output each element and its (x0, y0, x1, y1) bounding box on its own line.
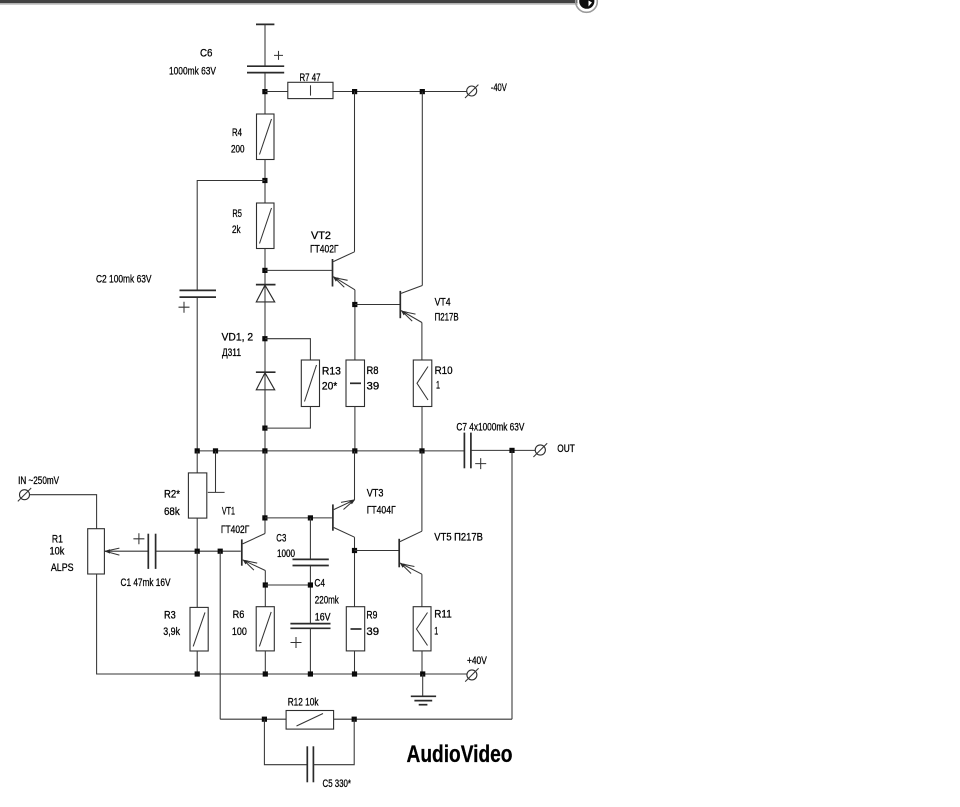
wire VD1 to junction (264, 285, 266, 373)
wire emitter to C3/C4 node (265, 584, 310, 586)
wire VT3 collector down (354, 537, 356, 607)
label +40V (467, 655, 487, 667)
svg-text:ALPS: ALPS (51, 562, 74, 574)
label R9 (366, 610, 379, 639)
node VT4 collector rail tap (420, 89, 425, 94)
wire VT4 emitter to R10 (421, 323, 423, 361)
svg-text:VD1, 2: VD1, 2 (222, 332, 254, 344)
svg-text:R4: R4 (232, 127, 242, 139)
svg-text:1000: 1000 (277, 548, 295, 560)
wire R13 bottom to junction (265, 407, 310, 429)
label C5 (323, 778, 352, 790)
terminal +40V (465, 668, 478, 681)
svg-text:100: 100 (232, 626, 247, 638)
capacitor C6 (247, 51, 284, 73)
node feedback base junction (218, 549, 223, 554)
svg-text:C2 100mk 63V: C2 100mk 63V (96, 274, 152, 286)
label C1 (121, 577, 171, 589)
wire junction to C2 branch (197, 181, 265, 291)
svg-text:1: 1 (434, 626, 438, 638)
label R5 (232, 208, 242, 236)
label C3 (276, 533, 295, 561)
svg-text:C6: C6 (200, 48, 213, 60)
svg-text:1000mk 63V: 1000mk 63V (169, 66, 217, 78)
label R3 (163, 610, 180, 639)
terminal OUT (533, 443, 547, 457)
node R12/C5 left junction (262, 717, 267, 722)
capacitor C7 (464, 433, 486, 470)
label C4 (314, 578, 339, 624)
wire output rail (197, 450, 464, 452)
label OUT (557, 443, 575, 455)
svg-text:R3: R3 (164, 610, 176, 622)
node ground rail C4 junction (308, 671, 313, 676)
corner button icon (576, 0, 598, 12)
svg-text:C5 330*: C5 330* (323, 778, 352, 790)
node rail diode chain junction (262, 448, 267, 453)
svg-text:-40V: -40V (491, 82, 507, 94)
node diode mid junction (262, 336, 267, 341)
svg-text:200: 200 (231, 144, 245, 156)
wire to VT3 base (265, 517, 332, 519)
label VT3 (367, 488, 396, 517)
node C3 top junction (308, 515, 313, 520)
svg-text:20*: 20* (322, 381, 338, 393)
resistor R13 (301, 360, 319, 407)
label R6 (232, 609, 247, 638)
svg-text:IN ~250mV: IN ~250mV (18, 475, 59, 487)
resistor R12 (286, 711, 334, 730)
wire R7 to -40V terminal (333, 91, 467, 93)
svg-text:R12 10k: R12 10k (288, 697, 319, 709)
node rail R10/VT5 junction (419, 448, 424, 453)
diode VD2 (256, 372, 276, 390)
capacitor C5 (307, 746, 313, 782)
label R12 (288, 697, 319, 709)
label C7 (456, 422, 524, 434)
wire R6 to rail (264, 651, 266, 674)
label VT4 (435, 297, 459, 324)
svg-text:R9: R9 (366, 610, 377, 622)
transistor VT4 (400, 286, 422, 323)
svg-text:C7 4x1000mk 63V: C7 4x1000mk 63V (456, 422, 524, 434)
wire C5 right branch (313, 719, 354, 765)
svg-text:R13: R13 (322, 366, 341, 378)
label R8 (367, 365, 380, 393)
label -40V (491, 82, 507, 94)
node rail/C2/R2 junction (195, 448, 200, 453)
node ground rail R6 junction (263, 671, 268, 676)
svg-text:2k: 2k (232, 224, 241, 236)
node VT2 base junction (262, 268, 267, 273)
resistor R4 (257, 114, 275, 160)
svg-text:AudioVideo: AudioVideo (407, 741, 513, 768)
wire C6 to R4 (264, 73, 266, 114)
svg-text:3,9k: 3,9k (163, 626, 180, 638)
wire C2 down to out rail (196, 298, 198, 451)
label VD1,2 (222, 332, 254, 360)
wire C5 left branch (264, 719, 307, 765)
node R4/R5 junction (262, 178, 267, 183)
wire VT2 emitter to R8 (354, 290, 356, 360)
wire feedback left vertical (219, 551, 221, 719)
svg-text:10k: 10k (50, 546, 65, 558)
wire R2 to base node (196, 518, 198, 551)
wire R3 to rail (196, 651, 198, 674)
svg-text:+40V: +40V (467, 655, 487, 667)
node R12/C5 right junction (352, 717, 357, 722)
wire VT2 collector vertical (354, 92, 356, 252)
wire R10 to out rail (421, 407, 423, 451)
svg-text:VT2: VT2 (311, 230, 331, 242)
node VT4 base junction (352, 302, 357, 307)
node VT1 emitter junction (263, 582, 268, 587)
node rail R2 tap junction (213, 448, 218, 453)
node feedback takeoff junction (509, 448, 514, 453)
label R2 (164, 489, 181, 519)
label VT5 (434, 532, 483, 544)
svg-text:VT4: VT4 (435, 297, 451, 309)
node ground rail R9 junction (352, 671, 357, 676)
wire VT4 collector vertical (421, 92, 423, 286)
wire VT5 base (355, 550, 399, 552)
resistor R2 (188, 473, 206, 518)
svg-text:16V: 16V (315, 612, 331, 624)
capacitor C2 (179, 290, 217, 312)
wire R2 tap (208, 451, 225, 493)
wire C7 to OUT terminal (471, 449, 535, 451)
wire R5 to VD1 (264, 249, 266, 285)
node C6/R7 junction (262, 89, 267, 94)
browser top bar (0, 0, 586, 5)
wire base node to R3 (196, 551, 198, 607)
svg-text:ГТ402Г: ГТ402Г (221, 524, 249, 536)
wire VT2 base (265, 269, 332, 271)
wire stub to C6 (264, 24, 266, 66)
label R1 (50, 534, 74, 575)
wire C4 to rail (309, 628, 311, 674)
label C2 (96, 274, 152, 286)
wire R11 to rail (421, 651, 423, 674)
label R13 (322, 366, 341, 393)
wire IN to R1 (30, 495, 97, 529)
resistor R7 (288, 82, 333, 98)
svg-text:R7 47: R7 47 (300, 72, 321, 84)
svg-text:Д311: Д311 (222, 347, 241, 359)
wire VT1 collector up to rail (264, 451, 266, 534)
potentiometer R1 (88, 529, 149, 574)
terminal IN (18, 488, 31, 501)
wire VT5 collector to rail (421, 451, 423, 531)
transistor VT1 (242, 534, 265, 571)
node VT5 base junction (352, 548, 357, 553)
svg-text:ГТ402Г: ГТ402Г (310, 244, 339, 256)
resistor R3 (190, 607, 208, 651)
resistor R8 (346, 360, 365, 407)
svg-text:R10: R10 (435, 365, 453, 377)
wire VT4 base (355, 304, 400, 306)
wire C1 to VT1 base (156, 550, 241, 552)
wire VT3 emitter to rail (354, 451, 356, 500)
resistor R9 (346, 607, 364, 651)
node C3/C4 mid junction (308, 582, 313, 587)
node VD2/R13 bottom junction (262, 426, 267, 431)
node R2/R3 base junction (195, 549, 200, 554)
wire rail to R2 (196, 451, 198, 473)
label VT2 (310, 230, 339, 256)
wire feedback right vertical (511, 450, 513, 719)
svg-text:R2*: R2* (164, 489, 181, 501)
svg-text:68k: 68k (164, 506, 180, 518)
svg-text:VT5 П217В: VT5 П217В (434, 532, 483, 544)
svg-text:R1: R1 (52, 534, 63, 546)
svg-text:C1 47mk 16V: C1 47mk 16V (121, 577, 171, 589)
svg-text:R8: R8 (367, 365, 379, 377)
transistor VT5 (399, 531, 422, 574)
svg-text:OUT: OUT (557, 443, 575, 455)
svg-text:39: 39 (367, 381, 380, 393)
wire R4 to R5 (264, 160, 266, 204)
resistor R11 (413, 607, 431, 651)
wire VT5 emitter to R11 (421, 574, 423, 607)
svg-text:C3: C3 (276, 533, 286, 545)
wire R12 right to feedback vertical (334, 718, 512, 720)
label R4 (231, 127, 245, 156)
node VT3 base wire junction (262, 515, 267, 520)
svg-text:39: 39 (366, 626, 379, 638)
svg-text:П217В: П217В (435, 312, 459, 324)
resistor R6 (256, 607, 274, 651)
resistor R10 (413, 360, 432, 407)
wire junction to R13 top (265, 339, 310, 360)
svg-text:1: 1 (436, 380, 440, 392)
node ground rail R3 junction (195, 671, 200, 676)
label R7 value (300, 72, 321, 84)
label IN (18, 475, 59, 487)
transistor VT2 (333, 252, 355, 290)
wire R9 to rail (354, 651, 356, 674)
node top supply stub (256, 23, 274, 25)
label AudioVideo (407, 741, 513, 768)
node ground rail R11/gnd junction (420, 671, 425, 676)
wire VT1 emitter down (264, 571, 266, 607)
label VT1 (221, 506, 249, 537)
transistor VT3 (333, 500, 355, 538)
capacitor C3 (293, 518, 329, 566)
svg-text:VT1: VT1 (222, 506, 235, 518)
svg-text:R11: R11 (434, 609, 451, 621)
capacitor C1 (133, 533, 155, 569)
svg-text:ГТ404Г: ГТ404Г (367, 505, 396, 517)
terminal -40V (465, 85, 478, 98)
wire feedback bottom left (220, 718, 286, 720)
wire junction to R7 (265, 91, 288, 93)
ground (411, 674, 436, 705)
label R11 (434, 609, 451, 638)
wire R1 bottom to ground rail (97, 574, 467, 674)
capacitor C4 (290, 624, 330, 648)
wire VD2 to lower junction (264, 372, 266, 451)
wire C3 to C4 (309, 566, 311, 624)
svg-text:C4: C4 (314, 578, 325, 590)
svg-text:R5: R5 (232, 208, 242, 220)
label C6 (169, 48, 217, 78)
svg-text:220mk: 220mk (315, 595, 339, 607)
svg-text:VT3: VT3 (367, 488, 384, 500)
resistor R5 (257, 203, 275, 249)
wire R8 to out rail (354, 407, 356, 451)
diode VD1 (256, 285, 276, 302)
svg-text:R6: R6 (233, 609, 245, 621)
label R10 (435, 365, 453, 392)
node VT2 collector rail tap (352, 89, 357, 94)
node rail R8/VT3 junction (352, 448, 357, 453)
